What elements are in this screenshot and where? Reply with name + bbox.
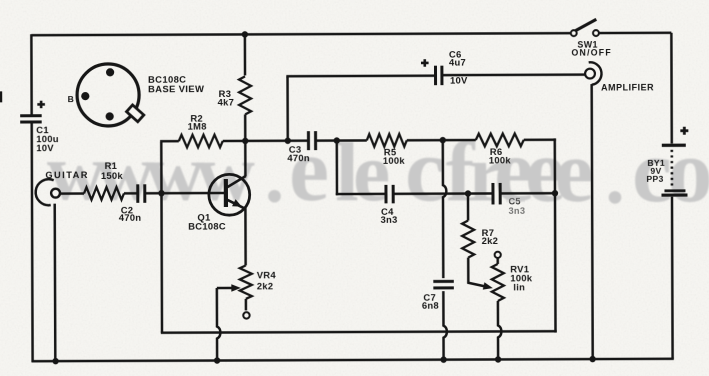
node ground amplifier sleeve [589,356,595,362]
node C5 right junction [552,190,558,196]
wire node A branch down [336,139,339,195]
wire collector to C3 [245,139,307,142]
svg-text:10V: 10V [450,75,468,86]
svg-text:GUITAR: GUITAR [45,170,89,180]
wire R3 bottom lead [244,114,247,141]
preset VR4 [240,265,252,299]
svg-text:4u7: 4u7 [449,57,466,68]
wire C7 upper lead with hop at 194 [443,141,447,279]
svg-text:3n3: 3n3 [509,206,526,216]
node ground C7 [440,356,446,362]
arrowhead VR4 wiper [231,284,241,291]
wire R5 to node B [407,139,444,142]
resistor R6 [476,134,524,147]
wire guitar jack to R1 [59,192,83,195]
svg-text:10V: 10V [36,142,54,153]
svg-text:470n: 470n [119,212,142,223]
wire C6 branch vertical [286,76,289,141]
svg-text:470n: 470n [287,152,310,163]
wire C4 to C5 [394,192,492,195]
transistor Q1 emitter arrow [232,199,242,207]
battery BY1 positive plate [662,144,686,147]
capacitor C4 plates [386,185,393,204]
battery BY1 label [646,158,665,184]
wire R7 bottom lead [467,258,470,283]
transistor Q1 label [188,211,226,231]
wire feedback bottom line [161,331,557,333]
svg-text:100k: 100k [489,154,512,165]
resistor R6 label [489,146,512,166]
wire R2 right stub [223,140,247,143]
capacitor C2 label [119,204,142,223]
BC108C base view outline [77,64,139,126]
transistor Q1 collector lead [226,176,246,188]
wire node A to R5 [337,139,367,142]
node ground VR4 wiper [214,357,220,363]
resistor R2 [179,135,223,148]
jack J1 guitar socket [36,179,60,205]
node C6 branch junction [285,138,291,144]
wire collector vertical [244,141,247,176]
wire C5 to node C [500,192,554,195]
resistor R1 [84,187,124,200]
node A after C3 [334,137,340,143]
node R7 top junction [465,190,471,196]
resistor R7 label [482,227,499,246]
wire R2 left / feedback vertical [160,142,163,332]
svg-text:100k: 100k [383,155,406,166]
node ground RV1 [495,356,501,362]
switch SW1 contacts [571,30,599,36]
capacitor C1 plates [20,116,42,122]
svg-text:AMPLIFIER: AMPLIFIER [601,82,654,92]
svg-text:4k7: 4k7 [218,96,235,107]
wire Q1 emitter vertical [244,208,247,265]
wire VR4 wiper arrow line [217,287,236,290]
resistor R7 [462,221,474,258]
capacitor C3 label [287,144,310,164]
wire right side to battery + [670,33,673,144]
resistor R3 label [218,88,235,108]
label AMPLIFIER [601,82,654,92]
paper speckle [0,0,1,1]
svg-text:VR4: VR4 [257,269,277,280]
decorative watermark [47,120,709,221]
jack J2 amplifier [585,62,601,85]
transistor Q1 emitter lead [226,199,245,209]
svg-text:c: c [405,121,445,220]
resistor R1 label [101,160,124,181]
svg-text:PP3: PP3 [646,174,663,184]
wire top supply rail [31,33,571,35]
capacitor C3 plates [308,131,315,150]
wire left side above C1 [30,34,33,114]
wire C6 branch horizontal left [286,74,434,77]
svg-text:BASE VIEW: BASE VIEW [148,83,204,94]
wire R3 top lead [244,34,247,75]
svg-text:2k2: 2k2 [257,280,274,291]
wire C6 to amplifier jack [443,73,586,76]
capacitor C7 label [422,292,439,311]
wire bottom ground rail [32,359,674,361]
svg-text:3n3: 3n3 [381,214,398,225]
capacitor C4 label [381,206,398,225]
transistor Q1 body [209,174,250,215]
wire node C vertical [554,139,557,333]
capacitor C1 polarity + [37,101,45,109]
capacitor C7 plates [433,281,454,288]
wire C2 to Q1 base [146,192,224,195]
wire battery - to bottom rail [671,197,674,359]
resistor R5 [367,134,407,147]
label B pin [68,94,75,104]
scan artifact left edge [0,91,2,102]
capacitor C5 label (faded) [506,196,525,216]
switch SW1 lever [576,19,597,30]
wire node A' to C4 [336,193,385,196]
potentiometer RV1 label [510,263,533,292]
capacitor C6 polarity + [421,59,429,67]
svg-text:ON/OFF: ON/OFF [571,48,611,58]
preset VR4 label [257,269,277,291]
wire RV1 top stub [496,258,499,264]
preset VR4 end terminal [243,312,249,318]
label BC108C BASE VIEW [148,74,204,95]
battery BY1 negative plates [661,191,687,195]
wire top rail right of SW1 [599,32,672,35]
resistor R2 label [188,113,207,132]
node B R5/R6 junction [440,137,446,143]
resistor R5 label [383,146,406,166]
capacitor C2 plates [138,184,145,203]
BC108C base view tab [127,105,144,122]
capacitor C6 plates [435,66,441,86]
wire R7 to RV1 wiper arrow [467,282,488,287]
wire guitar jack sleeve to ground [53,204,56,361]
capacitor C6 label [449,49,468,86]
wire C7 lower lead with hop [443,291,447,360]
battery BY1 polarity + [680,127,688,135]
svg-text:1M8: 1M8 [188,121,207,132]
node R3 top rail junction [242,31,248,37]
arrowhead RV1 wiper [483,282,493,289]
potentiometer RV1 [492,264,504,301]
wire node B to R6 [443,139,476,142]
svg-text:B: B [68,94,75,104]
capacitor C1 label [36,124,59,153]
label GUITAR [45,170,89,180]
node ground guitar sleeve [52,358,58,364]
capacitor C5 plates [493,183,500,205]
transistor Q1 base bar [224,179,228,207]
potentiometer RV1 top terminal [495,252,501,258]
svg-text:2k2: 2k2 [482,235,499,246]
wire VR4 wiper to ground with hop [217,288,221,361]
battery BY1 cells dotted [671,150,674,187]
switch SW1 label [571,40,612,58]
svg-text:e: e [554,124,593,221]
wire VR4 bottom stub [245,299,248,310]
svg-text:BC108C: BC108C [188,220,226,231]
svg-text:150k: 150k [101,170,124,181]
wire R1 to C2 [124,192,136,195]
BC108C base view pin dots [81,68,114,120]
resistor R3 [239,76,251,114]
node base junction [158,190,164,196]
wire left side below C1 [30,123,33,362]
node collector junction [242,138,248,144]
wire RV1 bottom lead with hop [498,301,502,360]
wire amplifier sleeve down [592,84,593,359]
svg-text:o: o [667,122,709,221]
wire R2 left stub [160,140,179,143]
svg-text:6n8: 6n8 [422,300,439,311]
wire R7 top lead [467,194,470,221]
wire C3 to node A [316,139,337,142]
wire R6 to node C [524,138,556,141]
svg-text:lin: lin [513,281,525,292]
